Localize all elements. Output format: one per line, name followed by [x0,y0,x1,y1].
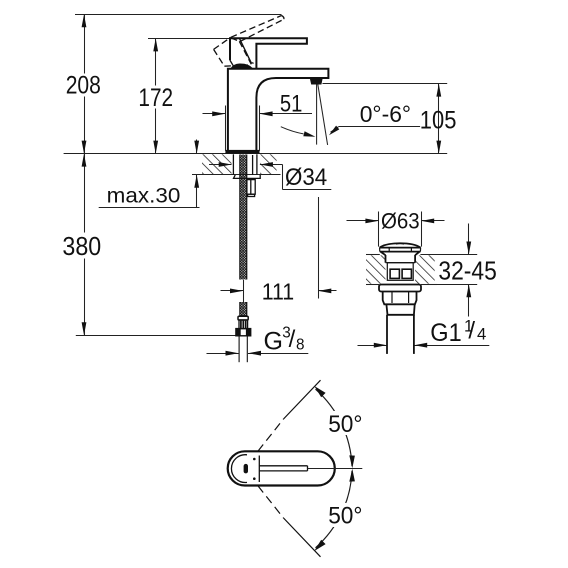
svg-text:max.30: max.30 [107,185,181,208]
svg-text:172: 172 [138,84,173,112]
svg-text:380: 380 [62,233,101,261]
svg-text:/: / [289,326,296,353]
svg-text:32-45: 32-45 [438,257,496,285]
svg-text:51: 51 [280,90,303,117]
svg-text:0°-6°: 0°-6° [360,101,411,127]
svg-text:8: 8 [296,337,305,354]
svg-text:Ø63: Ø63 [381,208,420,233]
svg-text:50°: 50° [328,502,362,529]
svg-text:50°: 50° [328,412,362,438]
svg-text:111: 111 [262,278,295,304]
svg-text:4: 4 [477,325,486,344]
svg-text:G1: G1 [430,319,461,347]
svg-text:Ø34: Ø34 [285,164,327,191]
svg-text:208: 208 [66,73,101,100]
svg-text:105: 105 [420,106,457,134]
svg-text:/: / [468,317,475,344]
svg-text:G: G [264,328,283,356]
